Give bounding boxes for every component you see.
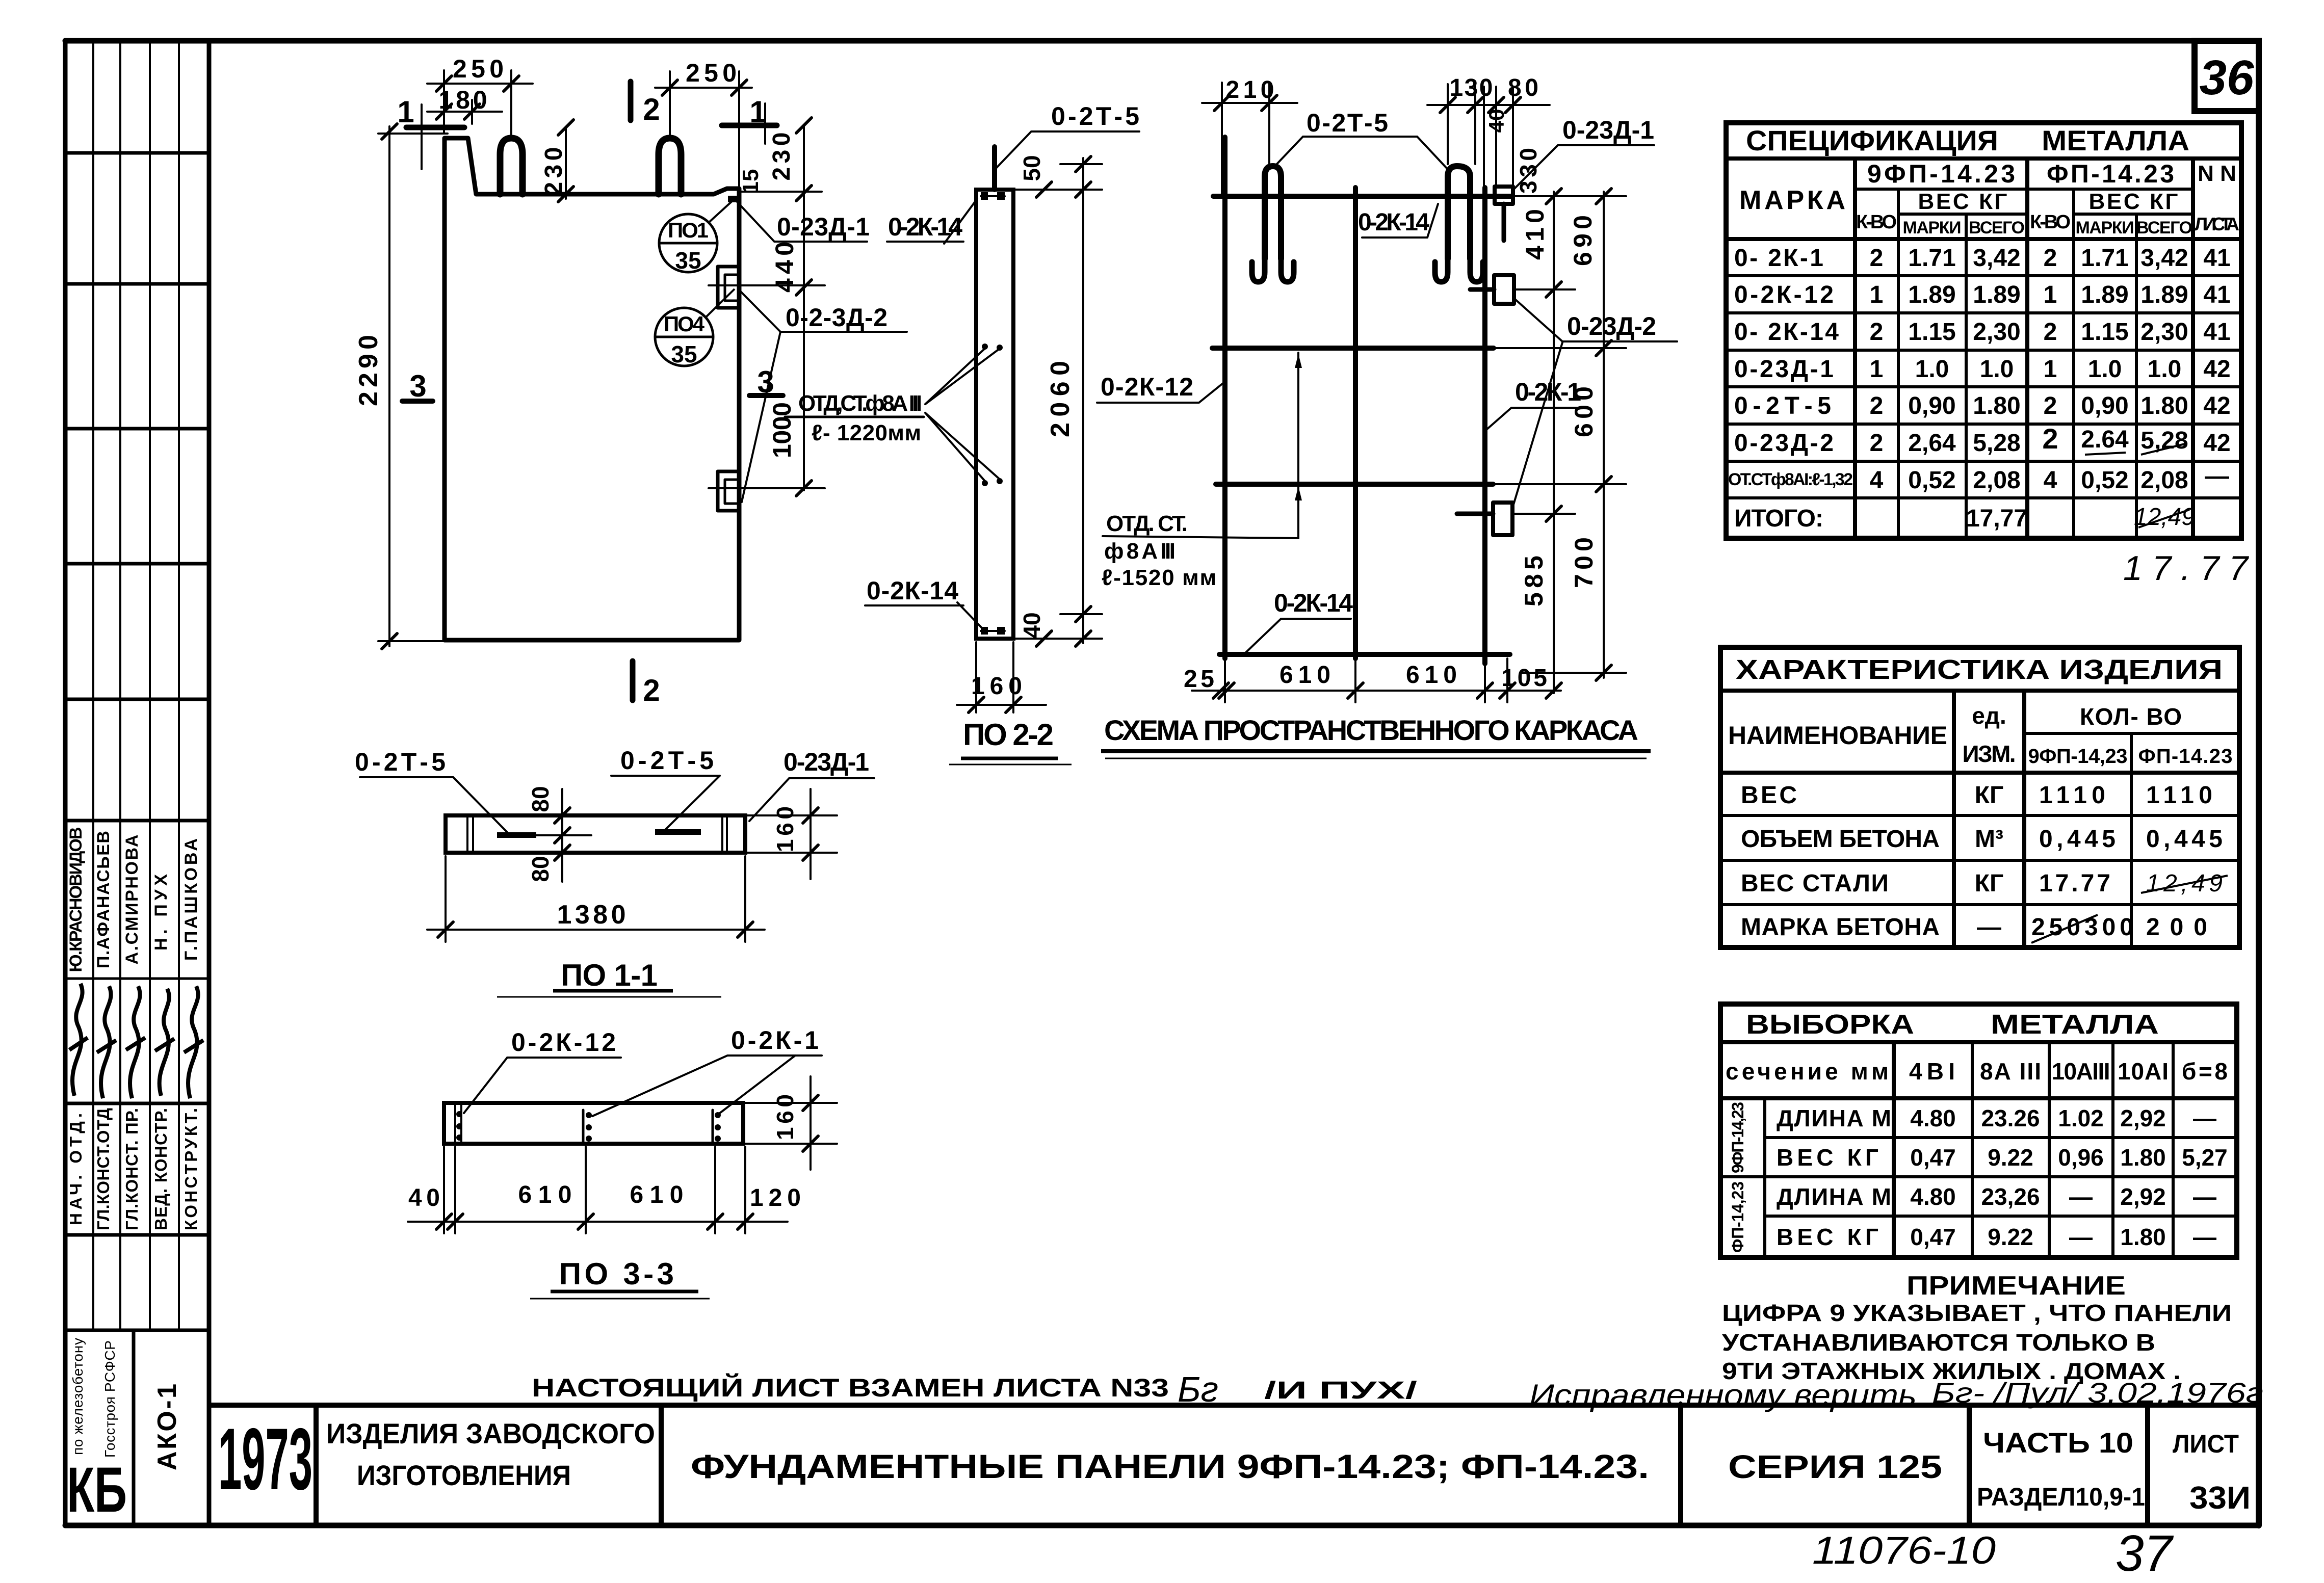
bottom K-14 bar marks: [981, 627, 988, 635]
svg-text:—: —: [2069, 1224, 2093, 1250]
top K-14 bar marks: [981, 192, 988, 200]
svg-text:ФП-14,23: ФП-14,23: [1729, 1181, 1747, 1253]
svg-text:ЧАСТЬ 10: ЧАСТЬ 10: [1983, 1427, 2133, 1459]
svg-text:0-23Д-1: 0-23Д-1: [777, 213, 870, 241]
leader 0-23D-1: [737, 201, 867, 242]
svg-text:—: —: [1977, 914, 2001, 941]
svg-text:0-2К-14: 0-2К-14: [888, 213, 962, 241]
left band column rule 1: [92, 41, 94, 1330]
anchor bar 0-2T-5 top stub: [992, 147, 997, 190]
svg-text:2: 2: [2044, 392, 2057, 419]
dim 40 ext lines: [1015, 638, 1102, 640]
svg-text:1.15: 1.15: [1908, 319, 1955, 346]
svg-text:0-2К-14: 0-2К-14: [867, 576, 958, 605]
svg-text:0-2Т-5: 0-2Т-5: [1051, 102, 1139, 130]
svg-text:1.89: 1.89: [1973, 281, 2020, 308]
svg-text:1.80: 1.80: [1973, 392, 2020, 419]
svg-text:0-2-3Д-2: 0-2-3Д-2: [786, 303, 887, 332]
svg-text:0-2К-14: 0-2К-14: [1358, 209, 1429, 236]
svg-text:0-23Д-1: 0-23Д-1: [1734, 356, 1834, 383]
leader 0-2-3D-2 down: [742, 332, 780, 502]
section 3-3 rebar dots left: [456, 1111, 462, 1117]
svg-text:ВЕС: ВЕС: [1741, 782, 1797, 809]
svg-text:ОТД. СТ.: ОТД. СТ.: [1106, 511, 1188, 536]
svg-text:690: 690: [1569, 215, 1597, 266]
svg-text:ХАРАКТЕРИСТИКА ИЗДЕЛИЯ: ХАРАКТЕРИСТИКА ИЗДЕЛИЯ: [1736, 654, 2223, 685]
svg-text:80: 80: [527, 786, 554, 812]
svg-text:РАЗДЕЛ10,9-1: РАЗДЕЛ10,9-1: [1977, 1483, 2145, 1511]
svg-text:ПО 2-2: ПО 2-2: [963, 718, 1054, 752]
svg-text:2.64: 2.64: [2081, 426, 2129, 453]
svg-text:2: 2: [1870, 430, 1884, 457]
svg-text:2,08: 2,08: [1973, 467, 2020, 494]
dim 180 lines: [427, 111, 502, 113]
svg-text:3,42: 3,42: [2140, 245, 2188, 272]
svg-text:10АI: 10АI: [2118, 1058, 2169, 1085]
svg-text:1000: 1000: [768, 402, 796, 458]
svg-text:160: 160: [772, 806, 798, 852]
svg-text:СХЕМА ПРОСТРАНСТВЕННОГО КАРКАС: СХЕМА ПРОСТРАНСТВЕННОГО КАРКАСА: [1104, 714, 1638, 746]
caption karkas underline thick: [1101, 749, 1651, 753]
svg-text:4: 4: [2044, 467, 2057, 494]
svg-text:2,64: 2,64: [1908, 430, 1956, 457]
left band column rule 3: [149, 41, 151, 1330]
svg-text:3: 3: [757, 365, 774, 399]
titles column rotated: [66, 1108, 200, 1230]
svg-text:2: 2: [1870, 392, 1884, 419]
left band row rules: [65, 151, 209, 155]
svg-text:1380: 1380: [557, 900, 626, 930]
leader OTD ST fan: [925, 348, 1001, 482]
svg-text:КОЛ- ВО: КОЛ- ВО: [2080, 703, 2182, 730]
svg-text:4.80: 4.80: [1910, 1183, 1956, 1210]
svg-text:ФУНДАМЕНТНЫЕ ПАНЕЛИ 9ФП-14.23;: ФУНДАМЕНТНЫЕ ПАНЕЛИ 9ФП-14.23; ФП-14.23.: [691, 1447, 1649, 1485]
left band right edge: [207, 41, 212, 1525]
svg-text:330: 330: [1515, 148, 1542, 194]
SEC33: [444, 1103, 743, 1144]
svg-text:по железобетону: по железобетону: [70, 1338, 86, 1455]
svg-text:ПО4: ПО4: [664, 312, 705, 336]
svg-text:ВЕС КГ: ВЕС КГ: [1777, 1144, 1878, 1171]
leader 0-2T-5 sec11 mid: [611, 776, 720, 831]
karkas horizontal bar bottom: [1219, 652, 1510, 657]
loose bar dots upper: [982, 344, 988, 350]
svg-text:ОТД,СТ.ф8А III: ОТД,СТ.ф8А III: [798, 391, 922, 416]
caption PO 1-1 underline thick: [553, 989, 673, 993]
svg-text:0,47: 0,47: [1910, 1224, 1956, 1250]
dim 2060 line: [1082, 158, 1084, 643]
svg-text:сечение мм: сечение мм: [1726, 1058, 1889, 1085]
svg-text:ПРИМЕЧАНИЕ: ПРИМЕЧАНИЕ: [1907, 1271, 2126, 1301]
svg-text:ВЫБОРКА: ВЫБОРКА: [1746, 1009, 1914, 1040]
section 3-3 bar body: [444, 1103, 743, 1144]
section mark 3 left: [402, 399, 433, 404]
SEC11: [446, 815, 745, 853]
lifting loop T-5 right: [1448, 166, 1470, 259]
svg-text:ВЕС СТАЛИ: ВЕС СТАЛИ: [1741, 870, 1889, 897]
svg-text:НАСТОЯЩИЙ ЛИСТ ВЗАМЕН ЛИСТА N3: НАСТОЯЩИЙ ЛИСТ ВЗАМЕН ЛИСТА N33: [532, 1373, 1169, 1402]
svg-text:2: 2: [2044, 245, 2057, 272]
metal table h-lines: [1720, 1040, 2237, 1044]
svg-text:1.0: 1.0: [2088, 356, 2122, 383]
dim ext lines right: [1513, 195, 1626, 197]
spec table h-lines: [1726, 156, 2241, 161]
svg-text:610: 610: [518, 1181, 572, 1208]
PANEL: [445, 138, 740, 640]
svg-text:0-2К-12: 0-2К-12: [511, 1028, 616, 1057]
svg-text:250: 250: [686, 59, 737, 87]
svg-text:ЛИСТ: ЛИСТ: [2173, 1430, 2239, 1458]
svg-text:0-2Т-5: 0-2Т-5: [620, 746, 714, 775]
svg-text:23,26: 23,26: [1981, 1183, 2040, 1210]
svg-text:9ФП-14.23: 9ФП-14.23: [1867, 160, 2015, 188]
dim 210 line: [1202, 102, 1297, 104]
svg-text:2: 2: [1870, 319, 1884, 346]
svg-text:9.22: 9.22: [1988, 1224, 2033, 1250]
svg-text:23.26: 23.26: [1981, 1105, 2040, 1131]
svg-text:41: 41: [2203, 281, 2230, 308]
plate 0-23D-2 lower: [1493, 503, 1512, 535]
svg-text:ОТ.СТф8АI:ℓ-1,32: ОТ.СТф8АI:ℓ-1,32: [1728, 470, 1853, 489]
svg-text:33И: 33И: [2189, 1481, 2251, 1516]
svg-text:2,30: 2,30: [2140, 319, 2188, 346]
svg-text:105: 105: [1501, 665, 1547, 692]
dim 50 ext lines: [1015, 189, 1102, 191]
svg-text:3,42: 3,42: [1973, 245, 2020, 272]
karkas vertical bar K-12: [1222, 137, 1228, 658]
metal table v-lines: [1763, 1098, 1766, 1257]
svg-text:УСТАНАВЛИВАЮТСЯ ТОЛЬКО В: УСТАНАВЛИВАЮТСЯ ТОЛЬКО В: [1722, 1329, 2155, 1356]
dim 2290 line: [388, 126, 390, 646]
svg-text:40: 40: [1019, 612, 1045, 638]
svg-text:МАРКА БЕТОНА: МАРКА БЕТОНА: [1741, 914, 1940, 941]
svg-text:б=8: б=8: [2182, 1058, 2228, 1085]
leader 0-2K-12 to karkas bar: [1097, 381, 1225, 403]
section 1-1 anchor right: [655, 829, 701, 835]
svg-text:ВЕС КГ: ВЕС КГ: [1777, 1224, 1878, 1250]
svg-text:ИЗГОТОВЛЕНИЯ: ИЗГОТОВЛЕНИЯ: [357, 1459, 571, 1491]
svg-text:2: 2: [1870, 245, 1884, 272]
svg-text:ВЕС КГ: ВЕС КГ: [1918, 189, 2007, 214]
leader 0-2T-5 to stub: [996, 131, 1139, 168]
svg-text:0- 2К-14: 0- 2К-14: [1734, 319, 1839, 346]
svg-text:1.0: 1.0: [1980, 356, 2014, 383]
svg-text:40: 40: [408, 1184, 440, 1211]
embedded plate bracket upper: [718, 267, 739, 308]
svg-text:5,28: 5,28: [1973, 430, 2020, 457]
svg-text:1.0: 1.0: [2148, 356, 2182, 383]
svg-text:А.СМИРНОВА: А.СМИРНОВА: [122, 835, 142, 965]
sheet number box: [2195, 41, 2259, 111]
svg-text:2: 2: [643, 673, 660, 707]
left band column rule 4: [178, 41, 180, 1330]
caption PO 2-2 underline thick: [961, 757, 1058, 760]
names column rotated: [66, 827, 201, 972]
leader 0-2K-14 karkas bottom: [1245, 619, 1351, 653]
svg-text:1.89: 1.89: [1908, 281, 1955, 308]
section 1-1 anchor left: [497, 832, 536, 838]
dim 230/15 right, 440, 1000 vertical line: [803, 125, 805, 490]
dim 1380 lines: [445, 856, 447, 942]
dim extension plate2 mid: [709, 487, 825, 489]
svg-text:2: 2: [2042, 423, 2058, 455]
svg-text:М³: М³: [1975, 826, 2003, 853]
svg-text:—: —: [2205, 463, 2229, 490]
karkas horizontal bar third: [1216, 482, 1493, 487]
svg-text:4: 4: [1870, 467, 1884, 494]
spec strike marks: [2085, 453, 2126, 455]
metal table frame: [1720, 1004, 2237, 1257]
svg-text:36: 36: [2200, 50, 2254, 105]
svg-text:ПО 1-1: ПО 1-1: [561, 958, 658, 992]
char table frame: [1720, 647, 2239, 947]
svg-text:11076-10: 11076-10: [1812, 1529, 1996, 1572]
dim 160 sec33 lines: [745, 1102, 837, 1104]
svg-text:ВСЕГО: ВСЕГО: [2136, 218, 2192, 238]
svg-text:40: 40: [1484, 109, 1508, 133]
svg-text:1973: 1973: [218, 1410, 312, 1508]
panel lifting loop right: [659, 138, 681, 194]
svg-text:160: 160: [971, 673, 1022, 700]
char table h-lines: [1720, 689, 2239, 693]
svg-text:0-2К-12: 0-2К-12: [1734, 281, 1834, 308]
svg-text:9ФП-14,23: 9ФП-14,23: [1729, 1102, 1747, 1173]
svg-text:17.77: 17.77: [2123, 549, 2249, 588]
spec table frame: [1726, 123, 2241, 538]
svg-text:8А III: 8А III: [1980, 1058, 2041, 1085]
leader 0-2T-5 karkas: [1273, 137, 1447, 168]
svg-text:0-23Д-2: 0-23Д-2: [1567, 312, 1656, 340]
dim 250 right lines: [655, 87, 752, 89]
svg-text:35: 35: [671, 341, 697, 367]
svg-text:700: 700: [1570, 537, 1598, 588]
svg-text:К-ВО: К-ВО: [1856, 212, 1897, 233]
svg-text:ℓ- 1220мм: ℓ- 1220мм: [812, 420, 921, 445]
svg-text:ПО1: ПО1: [668, 218, 709, 242]
svg-text:250: 250: [453, 55, 504, 83]
svg-text:МАРКА: МАРКА: [1739, 186, 1845, 215]
svg-text:3: 3: [409, 369, 426, 403]
signatures: [69, 984, 203, 1098]
svg-text:ИЗДЕЛИЯ ЗАВОДСКОГО: ИЗДЕЛИЯ ЗАВОДСКОГО: [326, 1417, 655, 1449]
svg-text:41: 41: [2203, 319, 2230, 346]
svg-text:5,27: 5,27: [2182, 1144, 2228, 1171]
svg-text:КГ: КГ: [1975, 782, 2004, 809]
svg-text:0-2Т-5: 0-2Т-5: [1734, 392, 1831, 419]
section mark 1 right: [722, 123, 777, 128]
position circle PO1/35: [659, 200, 733, 272]
svg-text:10АIII: 10АIII: [2052, 1058, 2110, 1085]
leader 0-2-3D-2 up: [741, 292, 907, 332]
svg-text:ЦИФРА 9 УКАЗЫВАЕТ , ЧТО ПАНЕЛИ: ЦИФРА 9 УКАЗЫВАЕТ , ЧТО ПАНЕЛИ: [1722, 1300, 2232, 1326]
leader 0-2K-14 lower: [865, 602, 983, 629]
svg-text:МАРКИ: МАРКИ: [1903, 218, 1962, 238]
svg-text:9ФП-14,23: 9ФП-14,23: [2028, 745, 2128, 768]
section 3-3 rebar dots right: [712, 1110, 714, 1143]
plate 0-23D-1 on top bar: [1495, 187, 1513, 204]
dim 80-80 line sec11: [561, 789, 563, 882]
svg-text:1.02: 1.02: [2058, 1105, 2104, 1131]
svg-text:ℓ-1520 мм: ℓ-1520 мм: [1102, 565, 1216, 590]
svg-text:ВЕД. КОНСТР.: ВЕД. КОНСТР.: [151, 1108, 170, 1230]
svg-text:0- 2К-1: 0- 2К-1: [1734, 245, 1823, 272]
svg-text:37: 37: [2116, 1525, 2174, 1582]
svg-text:1110: 1110: [2039, 782, 2105, 809]
section 2-2 body: [976, 190, 1013, 639]
lifting loop T-5 left: [1265, 166, 1281, 259]
svg-text:42: 42: [2203, 356, 2230, 383]
svg-text:1: 1: [2044, 356, 2057, 383]
svg-text:1110: 1110: [2146, 782, 2212, 809]
svg-text:5,28: 5,28: [2140, 427, 2188, 454]
svg-text:2: 2: [643, 92, 660, 126]
svg-text:2,92: 2,92: [2120, 1183, 2166, 1210]
section 1-1 bar body: [446, 815, 745, 853]
svg-text:ДЛИНА М: ДЛИНА М: [1777, 1183, 1891, 1210]
leader 0-23D-2 karkas: [1515, 299, 1677, 341]
svg-text:1.89: 1.89: [2140, 281, 2188, 308]
TABLES: [1726, 123, 2241, 538]
embedded plate bracket lower: [718, 471, 739, 511]
svg-text:АКО-1: АКО-1: [152, 1384, 182, 1470]
svg-text:17,77: 17,77: [1966, 505, 2027, 532]
svg-text:КГ: КГ: [1975, 870, 2004, 897]
svg-text:ИЗМ.: ИЗМ.: [1963, 741, 2016, 767]
svg-text:41: 41: [2203, 245, 2230, 272]
svg-text:200: 200: [2146, 914, 2207, 941]
title block top edge: [209, 1403, 2259, 1408]
svg-text:Бг: Бг: [1178, 1369, 1218, 1409]
caption PO 3-3 underline thin: [530, 1298, 710, 1300]
spec table v-lines: [1853, 159, 1857, 538]
svg-text:N N: N N: [2198, 161, 2236, 186]
char table v-lines: [1952, 691, 1956, 947]
svg-text:1: 1: [1870, 356, 1884, 383]
karkas horizontal bar top: [1213, 194, 1512, 199]
svg-text:ЛИСТА: ЛИСТА: [2195, 214, 2239, 234]
karkas horizontal bar second: [1212, 346, 1494, 351]
svg-text:0-23Д-2: 0-23Д-2: [1734, 430, 1834, 457]
panel lifting loop left: [500, 138, 523, 194]
TITLEBLOCK: [209, 1405, 2259, 1525]
svg-text:1.80: 1.80: [2120, 1224, 2166, 1250]
svg-text:КБ: КБ: [67, 1455, 127, 1525]
dim bottom line karkas: [1192, 690, 1561, 692]
svg-text:—: —: [2193, 1183, 2216, 1210]
SEC22: [976, 147, 1013, 639]
panel outline: [445, 138, 739, 640]
metal data rows: [1777, 1105, 2228, 1250]
karkas vertical bar K-1: [1482, 188, 1487, 664]
svg-text:25: 25: [1184, 666, 1214, 693]
svg-text:120: 120: [750, 1184, 801, 1211]
svg-text:ИТОГО:: ИТОГО:: [1734, 505, 1823, 532]
dim 250 left lines: [427, 83, 533, 85]
fraction bar OTD ST 1220: [785, 416, 924, 418]
svg-text:Бг- /Пул/ 3.02.1976г: Бг- /Пул/ 3.02.1976г: [1932, 1377, 2263, 1409]
svg-text:—: —: [2193, 1224, 2216, 1250]
svg-text:4ВI: 4ВI: [1909, 1058, 1955, 1085]
svg-text:ВСЕГО: ВСЕГО: [1969, 218, 2025, 238]
svg-text:ПО 3-3: ПО 3-3: [559, 1257, 674, 1291]
leader 0-23D-1 karkas: [1513, 145, 1654, 190]
leader 0-2K-1 sec33: [592, 1056, 822, 1116]
svg-text:Н. ПУХ: Н. ПУХ: [151, 874, 171, 951]
svg-text:ф 8 А III: ф 8 А III: [1104, 539, 1176, 564]
svg-text:42: 42: [2203, 430, 2230, 457]
svg-text:П.АФАНАСЬЕВ: П.АФАНАСЬЕВ: [94, 831, 113, 968]
dim extension plate1 mid: [709, 284, 825, 286]
svg-text:ГЛ.КОНСТ.ОТД: ГЛ.КОНСТ.ОТД: [94, 1108, 113, 1230]
svg-text:0-2Т-5: 0-2Т-5: [355, 748, 446, 776]
leader 0-2K-14 karkas top: [1362, 204, 1438, 238]
leader 0-2K-14 upper: [887, 199, 977, 244]
svg-text:ед.: ед.: [1972, 702, 2006, 729]
svg-text:9.22: 9.22: [1988, 1144, 2033, 1171]
svg-text:2: 2: [2044, 319, 2057, 346]
svg-text:1.80: 1.80: [2120, 1144, 2166, 1171]
svg-text:0,52: 0,52: [1908, 467, 1955, 494]
svg-text:15: 15: [738, 169, 763, 194]
svg-text:НАЧ. ОТД.: НАЧ. ОТД.: [66, 1113, 85, 1225]
svg-text:ВЕС КГ: ВЕС КГ: [2089, 189, 2178, 214]
caption PO 2-2 underline thin: [949, 764, 1072, 766]
svg-text:—: —: [2193, 1105, 2216, 1131]
title block dividers: [314, 1405, 319, 1525]
frame top border: [65, 38, 2259, 44]
section mark 2 top: [628, 82, 634, 120]
svg-text:585: 585: [1520, 556, 1548, 606]
svg-text:МЕТАЛЛА: МЕТАЛЛА: [1991, 1009, 2159, 1040]
svg-text:Госстроя РСФСР: Госстроя РСФСР: [102, 1340, 118, 1458]
section mark 1 left: [406, 125, 464, 130]
svg-text:4.80: 4.80: [1910, 1105, 1956, 1131]
svg-text:ФП-14.23: ФП-14.23: [2047, 160, 2174, 188]
svg-text:0,90: 0,90: [2081, 392, 2128, 419]
spec data rows: [1728, 245, 2231, 532]
svg-text:0-2К-1: 0-2К-1: [731, 1026, 819, 1054]
svg-text:2,30: 2,30: [1973, 319, 2020, 346]
dim 230 left line: [565, 127, 567, 199]
frame bottom border: [65, 1523, 2259, 1528]
svg-text:35: 35: [675, 247, 701, 274]
svg-text:80: 80: [1508, 74, 1538, 101]
svg-text:210: 210: [1226, 76, 1274, 103]
svg-text:1.80: 1.80: [2140, 392, 2188, 419]
svg-text:0-23Д-1: 0-23Д-1: [1562, 116, 1654, 144]
svg-text:230: 230: [540, 147, 567, 196]
karkas vertical bar K-14 middle: [1353, 188, 1358, 658]
svg-text:2060: 2060: [1046, 361, 1075, 437]
dim vline 410 585: [1553, 192, 1555, 693]
svg-text:/И ПУХ/: /И ПУХ/: [1264, 1377, 1417, 1404]
svg-text:1: 1: [2044, 281, 2057, 308]
dim vline 690 600 700: [1603, 192, 1605, 678]
svg-text:610: 610: [1279, 662, 1330, 689]
svg-text:230: 230: [768, 133, 795, 181]
plate 0-23D-2 upper: [1494, 275, 1514, 304]
loose bar dots lower: [982, 480, 988, 486]
svg-text:0-2К-12: 0-2К-12: [1101, 373, 1193, 401]
caption PO 1-1 underline thin: [497, 996, 721, 998]
leader 0-2K-12 sec33: [464, 1058, 621, 1113]
svg-text:130: 130: [1450, 74, 1493, 101]
section 1-1 left end joints: [466, 815, 468, 853]
char strike marks: [2141, 876, 2228, 893]
svg-text:0,52: 0,52: [2081, 467, 2128, 494]
svg-text:1: 1: [1870, 281, 1884, 308]
dim 160 lines: [975, 642, 977, 713]
